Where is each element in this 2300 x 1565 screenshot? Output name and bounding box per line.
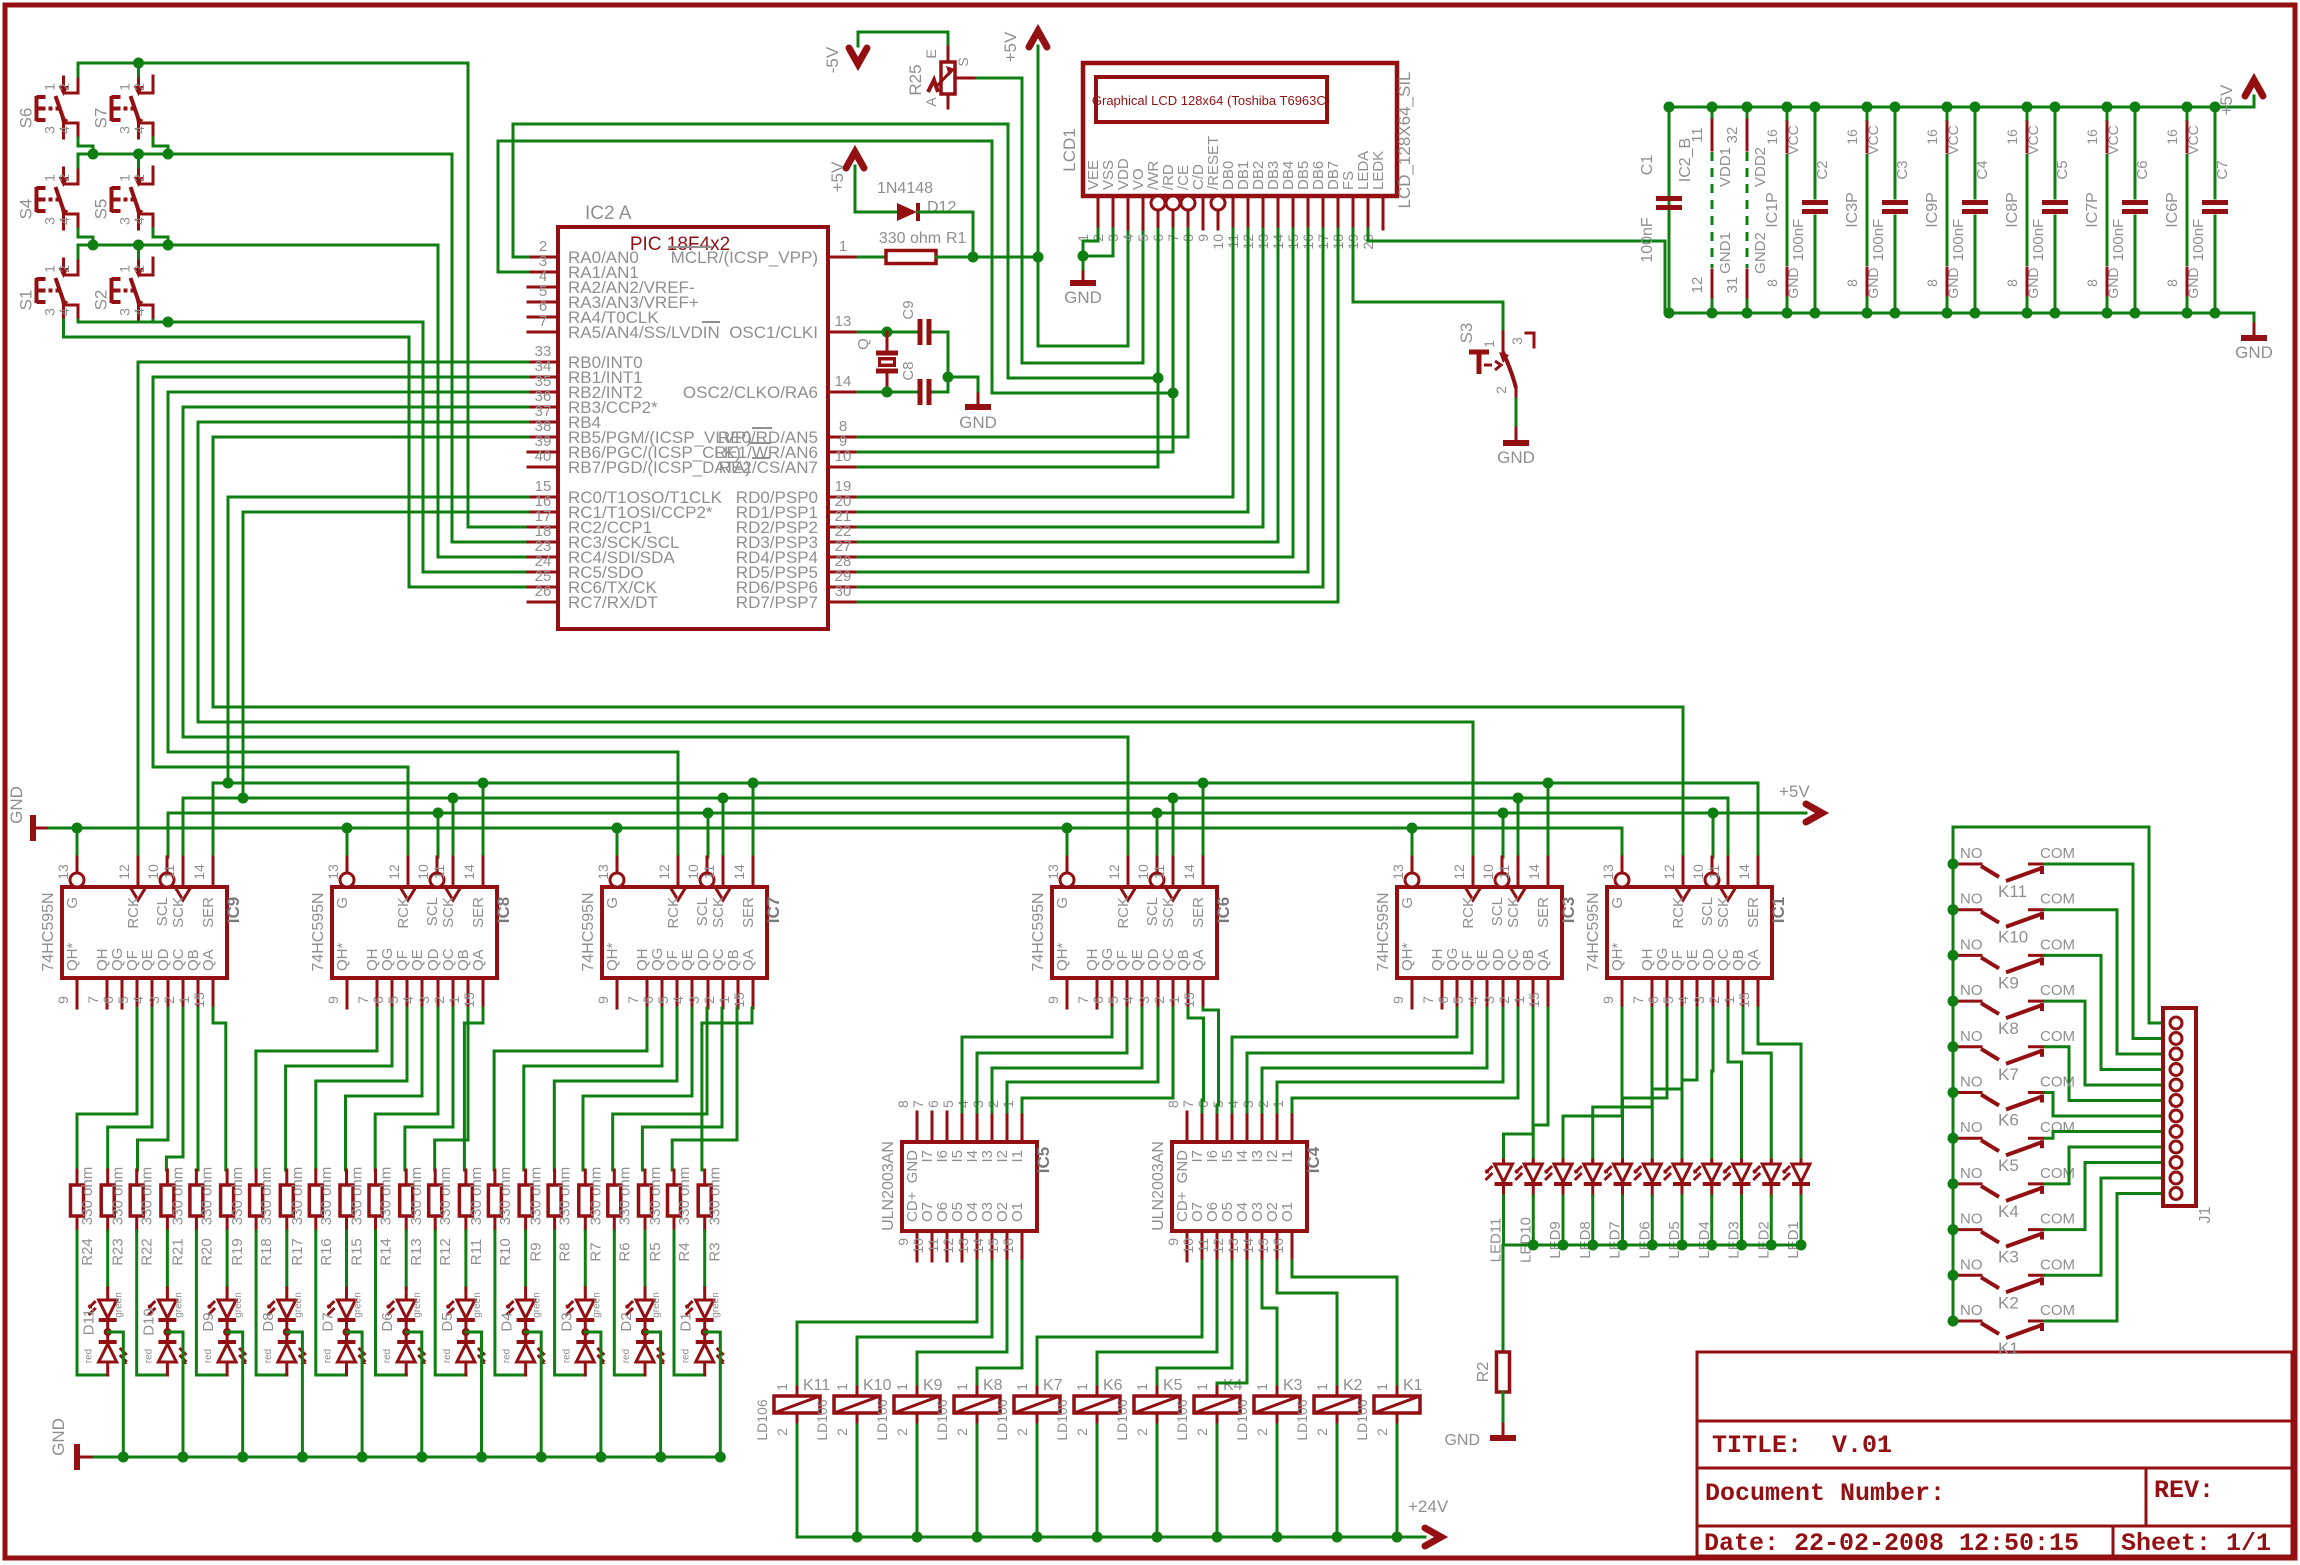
svg-text:2: 2 <box>1254 1428 1270 1436</box>
LCD pin 7 /CE <box>1165 165 1195 242</box>
svg-text:SER: SER <box>470 897 487 928</box>
wire R17 to green LED <box>285 1231 288 1288</box>
svg-text:1: 1 <box>1481 340 1497 348</box>
wire PIC RB4 to bundle x=198 <box>198 422 528 722</box>
wire K8 COM to J1 <box>2045 1001 2163 1085</box>
svg-text:9: 9 <box>1600 996 1616 1004</box>
resistor R2 <box>1475 1352 1510 1392</box>
svg-text:16: 16 <box>2004 129 2020 145</box>
wire SCK drop x=1173 <box>1172 798 1175 857</box>
svg-text:K4: K4 <box>1223 1377 1243 1394</box>
svg-text:R11: R11 <box>468 1239 485 1265</box>
LED LED2 <box>1752 1160 1780 1259</box>
wire LED8 feed <box>1593 1008 1652 1162</box>
resistor R4 330 ohm <box>668 1167 694 1262</box>
PIC pin 39 RB6/PGC/(ICSP_CLK) <box>528 433 741 462</box>
svg-text:R9: R9 <box>528 1242 545 1261</box>
svg-text:Date: 22-02-2008 12:50:15: Date: 22-02-2008 12:50:15 <box>1704 1529 2079 1558</box>
wire rail row3 to RC4 <box>78 245 528 557</box>
svg-text:QE: QE <box>1684 949 1701 971</box>
svg-text:9: 9 <box>895 1238 911 1246</box>
svg-text:2: 2 <box>1493 386 1509 394</box>
wire R12 to red LED <box>435 1231 466 1375</box>
LCD1 box <box>1083 63 1397 196</box>
wire RCK IC8 line <box>153 767 408 857</box>
svg-text:K5: K5 <box>1998 1156 2019 1175</box>
svg-text:VDD2: VDD2 <box>1752 147 1769 187</box>
svg-text:7: 7 <box>539 313 547 330</box>
svg-text:NO: NO <box>1960 1256 1983 1273</box>
svg-text:11: 11 <box>925 1238 941 1253</box>
svg-text:12: 12 <box>940 1238 956 1254</box>
svg-text:11: 11 <box>1151 865 1167 880</box>
svg-text:IC2_B: IC2_B <box>1677 138 1694 182</box>
svg-text:C2: C2 <box>1814 160 1831 179</box>
svg-text:10: 10 <box>685 864 701 880</box>
svg-text:IC7: IC7 <box>764 897 783 923</box>
svg-text:RCK: RCK <box>395 897 412 929</box>
LED LED5 <box>1663 1160 1691 1259</box>
svg-text:12: 12 <box>386 864 402 880</box>
svg-text:K7: K7 <box>1043 1377 1063 1394</box>
svg-text:2: 2 <box>1134 1428 1150 1436</box>
svg-text:1: 1 <box>774 1383 790 1391</box>
PIC pin 14 OSC2/CLKO/RA6 <box>683 373 858 402</box>
svg-text:12: 12 <box>1210 1238 1226 1254</box>
PIC pin 29 RD6/PSP6 <box>736 568 858 597</box>
PIC pin 1 MCLR/(ICSP_VPP) <box>671 238 858 267</box>
svg-text:QE: QE <box>139 949 156 971</box>
svg-text:6: 6 <box>1435 996 1451 1004</box>
svg-text:R13: R13 <box>408 1238 425 1266</box>
wire RA0 wrap to LCD /WR <box>513 124 1158 378</box>
svg-text:S7: S7 <box>92 108 111 129</box>
svg-text:2: 2 <box>1074 1428 1090 1436</box>
dual LED D7 <box>320 1288 367 1375</box>
wire NO common <box>1952 864 1955 1321</box>
wire R7 to green LED <box>584 1231 587 1288</box>
relay coil K6 LD106 <box>1054 1377 1123 1441</box>
svg-text:COM: COM <box>2040 936 2075 953</box>
svg-text:8: 8 <box>895 1100 911 1108</box>
wire D4 mid to GND rail <box>526 1332 542 1457</box>
wire K2 COM to J1 <box>2045 1178 2163 1275</box>
PIC pin 21 RD2/PSP2 <box>736 508 858 537</box>
svg-text:6: 6 <box>1090 996 1106 1004</box>
svg-text:330 ohm: 330 ohm <box>349 1167 366 1225</box>
svg-text:GND: GND <box>959 413 997 432</box>
svg-text:4: 4 <box>400 996 416 1004</box>
supply +24V <box>1408 1497 1449 1546</box>
svg-text:GND: GND <box>2235 343 2273 362</box>
wire NO common to J1 pin1 <box>1953 827 2163 1023</box>
svg-text:SCK: SCK <box>1715 897 1732 928</box>
svg-text:13: 13 <box>1045 864 1061 880</box>
svg-text:14: 14 <box>191 864 207 880</box>
wire R23 to green LED <box>106 1231 109 1288</box>
shift register IC3 74HC595N <box>1375 857 1578 1008</box>
svg-text:K10: K10 <box>863 1377 892 1394</box>
svg-text:GND: GND <box>2185 267 2201 298</box>
svg-text:9: 9 <box>595 996 611 1004</box>
svg-text:2: 2 <box>1706 996 1722 1004</box>
svg-text:3: 3 <box>1691 996 1707 1004</box>
LCD pin 2 VSS <box>1090 160 1117 242</box>
svg-text:QA: QA <box>1535 949 1552 971</box>
wire RCK IC6 line <box>183 737 1128 857</box>
svg-text:COM: COM <box>2040 982 2075 999</box>
svg-text:R16: R16 <box>318 1238 335 1266</box>
svg-text:QH*: QH* <box>334 943 351 972</box>
wire RCK IC1 line <box>213 707 1683 857</box>
resistor R1 330 ohm <box>879 230 967 264</box>
svg-text:K7: K7 <box>1998 1065 2019 1084</box>
wire D1 mid to GND rail <box>705 1332 721 1457</box>
PIC pin 16 RC1/T1OSI/CCP2* <box>528 493 713 522</box>
svg-text:COM: COM <box>2040 1256 2075 1273</box>
relay contact K2 <box>1953 1256 2075 1312</box>
wire +5V drop x=708 <box>707 813 710 857</box>
svg-text:1: 1 <box>839 238 847 255</box>
switch S5 <box>92 167 154 229</box>
svg-text:IC5: IC5 <box>1034 1147 1053 1173</box>
wire R21 to green LED <box>166 1231 169 1288</box>
wire MCLR <box>858 256 886 259</box>
svg-text:GND: GND <box>1064 288 1102 307</box>
LCD pin 16 DB6 <box>1300 161 1327 250</box>
svg-text:R4: R4 <box>676 1242 693 1261</box>
LCD pin 17 DB7 <box>1315 161 1342 250</box>
svg-text:330 ohm: 330 ohm <box>587 1167 604 1225</box>
svg-text:5: 5 <box>115 996 131 1004</box>
svg-text:330 ohm: 330 ohm <box>229 1167 246 1225</box>
svg-text:5: 5 <box>1450 996 1466 1004</box>
wire LED7 to rail <box>1621 1196 1624 1245</box>
svg-text:OSC2/CLKO/RA6: OSC2/CLKO/RA6 <box>683 383 818 402</box>
PIC pin 15 RC0/T1OSO/T1CLK <box>528 478 723 507</box>
svg-text:IC1: IC1 <box>1769 897 1788 923</box>
wires IC9 outputs to resistors <box>0 0 2 2</box>
svg-text:1: 1 <box>1314 1383 1330 1391</box>
PIC pin 2 RA0/AN0 <box>528 238 639 267</box>
resistor R18 330 ohm <box>250 1167 276 1266</box>
ground (S3) <box>1497 428 1535 467</box>
svg-text:330 ohm: 330 ohm <box>616 1167 633 1225</box>
svg-text:SER: SER <box>1745 897 1762 928</box>
wire to GND <box>948 377 978 402</box>
svg-text:4: 4 <box>56 308 72 316</box>
resistor R5 330 ohm <box>639 1167 665 1262</box>
power pins IC1P <box>1764 107 1801 313</box>
dual LED D10 <box>140 1288 187 1375</box>
diode D12 1N4148 <box>877 180 956 221</box>
PIC pin 5 RA3/AN3/VREF+ <box>528 283 699 312</box>
shift register IC7 74HC595N <box>580 857 783 1008</box>
wire OSC2 <box>858 391 916 394</box>
svg-text:15: 15 <box>461 992 477 1008</box>
wire K4 to +24V rail <box>1216 1425 1219 1537</box>
svg-text:8: 8 <box>2164 279 2180 287</box>
svg-text:A: A <box>923 97 939 107</box>
svg-text:13: 13 <box>1225 1238 1241 1254</box>
wires IC8 outputs to resistors <box>256 1008 377 1170</box>
svg-text:D6: D6 <box>379 1312 396 1331</box>
svg-text:16: 16 <box>2164 129 2180 145</box>
shift register IC9 74HC595N <box>40 857 243 1008</box>
svg-text:74HC595N: 74HC595N <box>1030 892 1047 971</box>
svg-text:NO: NO <box>1960 1028 1983 1045</box>
wire S7 pin4 to rail2 <box>153 138 168 154</box>
svg-text:1: 1 <box>1134 1383 1150 1391</box>
PIC pin 13 OSC1/CLKI <box>729 313 858 342</box>
svg-text:K5: K5 <box>1163 1377 1183 1394</box>
svg-text:10: 10 <box>910 1238 926 1254</box>
svg-text:330 ohm: 330 ohm <box>647 1167 664 1225</box>
svg-text:C8: C8 <box>900 361 917 380</box>
relay contact K5 <box>1953 1119 2075 1175</box>
relay coil K11 LD106 <box>754 1377 830 1441</box>
svg-text:R3: R3 <box>707 1242 724 1261</box>
wire PIC RC1 to bundle x=243 <box>243 512 528 798</box>
svg-text:R10: R10 <box>497 1238 514 1266</box>
wire LCD DB3 to RD3 <box>858 229 1278 542</box>
svg-text:red: red <box>323 1349 334 1363</box>
resistor R22 330 ohm <box>130 1167 156 1266</box>
wire K7 to +24V rail <box>1036 1425 1039 1537</box>
svg-text:7: 7 <box>85 996 101 1004</box>
wire R25 wiper to LCD VO <box>977 78 1143 363</box>
PIC pin 10 RE2/CS/AN7 <box>719 448 858 477</box>
wire LED rail to R2 <box>1503 1245 1801 1352</box>
wire RCK IC3 line <box>198 722 1473 857</box>
svg-text:NO: NO <box>1960 891 1983 908</box>
svg-text:330 ohm: 330 ohm <box>198 1167 215 1225</box>
svg-text:IC2 A: IC2 A <box>585 203 632 224</box>
power pins IC7P <box>2084 107 2121 313</box>
svg-text:LD106: LD106 <box>874 1399 890 1440</box>
capacitor C2 100nF <box>1790 107 1831 313</box>
svg-text:TITLE: V.01: TITLE: V.01 <box>1712 1431 1892 1460</box>
svg-text:LEDK: LEDK <box>1370 151 1387 190</box>
svg-text:NO: NO <box>1960 1165 1983 1182</box>
svg-text:6: 6 <box>100 996 116 1004</box>
svg-text:RE2/CS/AN7: RE2/CS/AN7 <box>719 458 818 477</box>
resistor R24 330 ohm <box>71 1167 97 1266</box>
PIC pin 33 RB0/INT0 <box>528 343 643 372</box>
svg-text:1: 1 <box>1074 1383 1090 1391</box>
svg-text:COM: COM <box>2040 845 2075 862</box>
wire K1 COM to J1 <box>2045 1194 2163 1322</box>
svg-text:LD106: LD106 <box>994 1399 1010 1440</box>
svg-text:S3: S3 <box>1457 323 1476 344</box>
svg-text:16: 16 <box>1000 1238 1016 1254</box>
svg-text:I1: I1 <box>1279 1150 1296 1163</box>
svg-text:R7: R7 <box>587 1242 604 1261</box>
wire R16 to red LED <box>316 1231 347 1375</box>
wire R14 to red LED <box>376 1231 407 1375</box>
svg-text:IC8P: IC8P <box>2004 192 2021 228</box>
svg-text:QH*: QH* <box>1609 943 1626 972</box>
svg-text:2: 2 <box>1496 996 1512 1004</box>
LED LED3 <box>1723 1160 1751 1259</box>
wire LCD FS to S3 <box>1353 229 1503 333</box>
ground (LED rail) <box>49 1418 77 1470</box>
svg-text:8: 8 <box>1165 1100 1181 1108</box>
svg-text:SCL: SCL <box>694 897 711 926</box>
capacitor C3 100nF <box>1870 107 1911 313</box>
svg-text:LD106: LD106 <box>754 1399 770 1440</box>
PIC pin 19 RD0/PSP0 <box>736 478 858 507</box>
resistor R7 330 ohm <box>579 1167 605 1262</box>
svg-text:red: red <box>203 1349 214 1363</box>
svg-text:-5V: -5V <box>823 46 842 73</box>
svg-text:SCL: SCL <box>1699 897 1716 926</box>
svg-text:7: 7 <box>1180 1100 1196 1108</box>
dual LED D3 <box>558 1288 605 1375</box>
svg-text:SCL: SCL <box>154 897 171 926</box>
svg-text:26: 26 <box>535 583 552 600</box>
relay coil K3 LD106 <box>1234 1377 1303 1441</box>
svg-text:K11: K11 <box>1998 882 2027 901</box>
supply -5V <box>823 32 867 73</box>
svg-text:100nF: 100nF <box>2190 219 2207 262</box>
wire LCD DB2 to RD2 <box>858 229 1263 527</box>
wire K3 to +24V rail <box>1276 1425 1279 1537</box>
wire +5V to D12 <box>855 166 897 212</box>
wire R13 to green LED <box>405 1231 408 1288</box>
svg-text:red: red <box>84 1349 95 1363</box>
svg-text:S6: S6 <box>17 108 36 129</box>
LED LED6 <box>1633 1160 1661 1259</box>
wire S4 pin4 to rail3 <box>78 229 93 245</box>
resistor R20 330 ohm <box>190 1167 216 1266</box>
svg-text:red: red <box>382 1349 393 1363</box>
svg-text:IC3P: IC3P <box>1844 192 1861 228</box>
svg-text:LD106: LD106 <box>1054 1399 1070 1440</box>
shift register IC8 74HC595N <box>310 857 513 1008</box>
svg-text:R1: R1 <box>946 230 967 247</box>
wire LED6 to rail <box>1651 1196 1654 1245</box>
LED LED10 <box>1514 1160 1542 1263</box>
power pins IC6P <box>2164 107 2201 313</box>
svg-text:1: 1 <box>1511 996 1527 1004</box>
svg-text:IC9P: IC9P <box>1924 192 1941 228</box>
svg-text:COM: COM <box>2040 1302 2075 1319</box>
wire D5 mid to GND rail <box>466 1332 482 1457</box>
svg-text:13: 13 <box>55 864 71 880</box>
resistor R8 330 ohm <box>548 1167 574 1262</box>
LCD pin 18 FS <box>1330 171 1357 250</box>
svg-text:12: 12 <box>656 864 672 880</box>
svg-text:QA: QA <box>470 949 487 971</box>
PIC pin 24 RC5/SDO <box>528 553 644 582</box>
svg-text:VCC: VCC <box>1865 125 1881 155</box>
svg-text:8: 8 <box>1924 279 1940 287</box>
svg-text:K9: K9 <box>1998 973 2019 992</box>
svg-text:C1: C1 <box>1639 155 1656 176</box>
svg-text:S2: S2 <box>92 290 111 311</box>
svg-text:12: 12 <box>1451 864 1467 880</box>
svg-text:LCD1: LCD1 <box>1060 128 1079 171</box>
svg-text:74HC595N: 74HC595N <box>310 892 327 971</box>
svg-text:330 ohm: 330 ohm <box>528 1167 545 1225</box>
svg-text:1: 1 <box>1014 1383 1030 1391</box>
svg-text:QE: QE <box>409 949 426 971</box>
svg-text:LD106: LD106 <box>1354 1399 1370 1440</box>
svg-text:10: 10 <box>1690 864 1706 880</box>
svg-text:2: 2 <box>1314 1428 1330 1436</box>
wire OSC1 <box>858 331 916 334</box>
wire RA1 wrap to LCD /RD <box>498 141 1173 393</box>
wire D12 to MCLR net <box>918 212 973 257</box>
svg-text:LD106: LD106 <box>1174 1399 1190 1440</box>
svg-text:14: 14 <box>970 1238 986 1254</box>
svg-text:green: green <box>591 1292 602 1318</box>
svg-text:1: 1 <box>894 1383 910 1391</box>
relay contact K4 <box>1953 1165 2075 1221</box>
LED LED4 <box>1693 1160 1721 1259</box>
relay contact K1 <box>1953 1302 2075 1358</box>
svg-text:3: 3 <box>1136 996 1152 1004</box>
svg-text:9: 9 <box>1165 1238 1181 1246</box>
svg-text:S: S <box>955 57 971 66</box>
wire D3 mid to GND rail <box>585 1332 601 1457</box>
LCD pin 15 DB5 <box>1285 161 1312 250</box>
svg-text:COM: COM <box>2040 1119 2075 1136</box>
svg-text:R12: R12 <box>437 1238 454 1266</box>
supply +5V (top right) <box>2217 80 2263 115</box>
svg-text:green: green <box>711 1292 722 1318</box>
svg-text:4: 4 <box>131 308 147 316</box>
wire K5 to +24V rail <box>1156 1425 1159 1537</box>
svg-text:C7: C7 <box>2214 160 2231 179</box>
PIC pin 18 RC3/SCK/SCL <box>528 523 679 552</box>
wires IC7 outputs to resistors <box>494 1008 647 1170</box>
svg-text:GND: GND <box>1497 448 1535 467</box>
wire R11 to green LED <box>464 1231 467 1288</box>
wires IC5 outputs to relays <box>797 1261 977 1384</box>
capacitor C1 100nF <box>1639 155 1682 263</box>
svg-text:K2: K2 <box>1998 1293 2019 1312</box>
svg-text:GND: GND <box>1865 267 1881 298</box>
LCD pin 12 DB2 <box>1240 161 1267 250</box>
wire LED1 to rail <box>1800 1196 1803 1245</box>
svg-text:QE: QE <box>679 949 696 971</box>
svg-text:C5: C5 <box>2054 160 2071 179</box>
svg-text:2: 2 <box>1374 1428 1390 1436</box>
PIC pin 25 RC6/TX/CK <box>528 568 657 597</box>
wire R3 to green LED <box>703 1231 706 1288</box>
ground (R2) <box>1444 1424 1516 1449</box>
wire S7 pin1 drop <box>137 63 140 76</box>
svg-text:IC9: IC9 <box>224 897 243 923</box>
svg-text:3: 3 <box>1481 996 1497 1004</box>
svg-text:GND: GND <box>2105 267 2121 298</box>
svg-text:R6: R6 <box>616 1242 633 1261</box>
svg-text:1: 1 <box>446 996 462 1004</box>
svg-text:R20: R20 <box>198 1238 215 1266</box>
svg-text:9: 9 <box>1390 996 1406 1004</box>
wire SER drop x=1203 <box>1202 783 1205 857</box>
svg-text:330 ohm: 330 ohm <box>258 1167 275 1225</box>
svg-text:14: 14 <box>835 373 852 390</box>
wire SER drop x=483 <box>482 783 485 857</box>
capacitor C4 100nF <box>1950 107 1991 313</box>
svg-text:+24V: +24V <box>1408 1497 1449 1516</box>
wire LED5 to rail <box>1681 1196 1684 1245</box>
wire LED4 to rail <box>1710 1196 1713 1245</box>
wire R22 to red LED <box>137 1231 168 1375</box>
